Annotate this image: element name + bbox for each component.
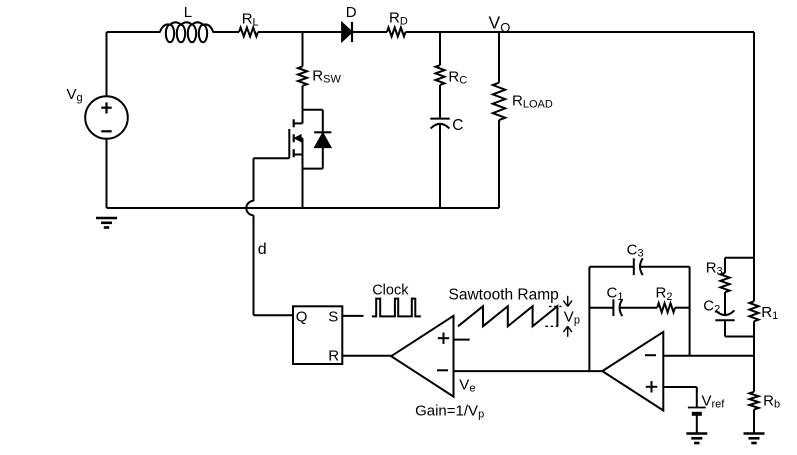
svg-text:Sawtooth Ramp: Sawtooth Ramp (449, 286, 559, 303)
svg-text:Q: Q (296, 309, 308, 326)
svg-text:Clock: Clock (372, 282, 409, 298)
svg-text:D: D (346, 4, 357, 21)
svg-text:Gain=1/Vp: Gain=1/Vp (415, 402, 484, 420)
svg-text:d: d (258, 241, 267, 258)
svg-text:R: R (328, 348, 339, 365)
svg-text:C: C (452, 117, 463, 134)
svg-text:S: S (328, 308, 338, 325)
svg-text:L: L (184, 4, 192, 21)
